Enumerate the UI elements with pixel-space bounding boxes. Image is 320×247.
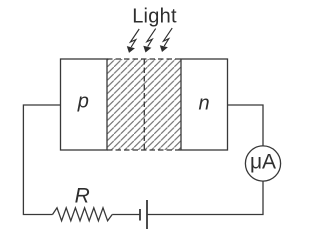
- wire: resistor to battery: [112, 214, 140, 216]
- depletion region hatch fill: [107, 59, 181, 150]
- microammeter U1: [245, 146, 280, 181]
- svg-text:p: p: [77, 90, 89, 112]
- wire: battery to microammeter: [147, 181, 263, 214]
- depletion region dashed top edge: [107, 58, 181, 60]
- n-region box: [181, 59, 228, 150]
- resistor R: [53, 208, 113, 221]
- p-n junction dashed centre line: [143, 59, 145, 150]
- light ray arrow 2: [143, 29, 155, 53]
- light ray arrow 1: [127, 29, 139, 53]
- p-region box: [61, 59, 108, 150]
- battery negative plate (short): [139, 209, 141, 221]
- battery positive plate (tall): [146, 200, 148, 229]
- depletion region dashed bottom edge: [107, 149, 181, 151]
- wire: p-box to left rail and down to resistor: [23, 105, 60, 215]
- wire: microammeter to n-box: [228, 105, 264, 146]
- light ray arrow 3: [160, 28, 172, 52]
- svg-text:R: R: [75, 184, 90, 207]
- svg-text:Light: Light: [132, 6, 177, 28]
- svg-text:n: n: [199, 92, 210, 114]
- svg-text:μA: μA: [250, 151, 276, 174]
